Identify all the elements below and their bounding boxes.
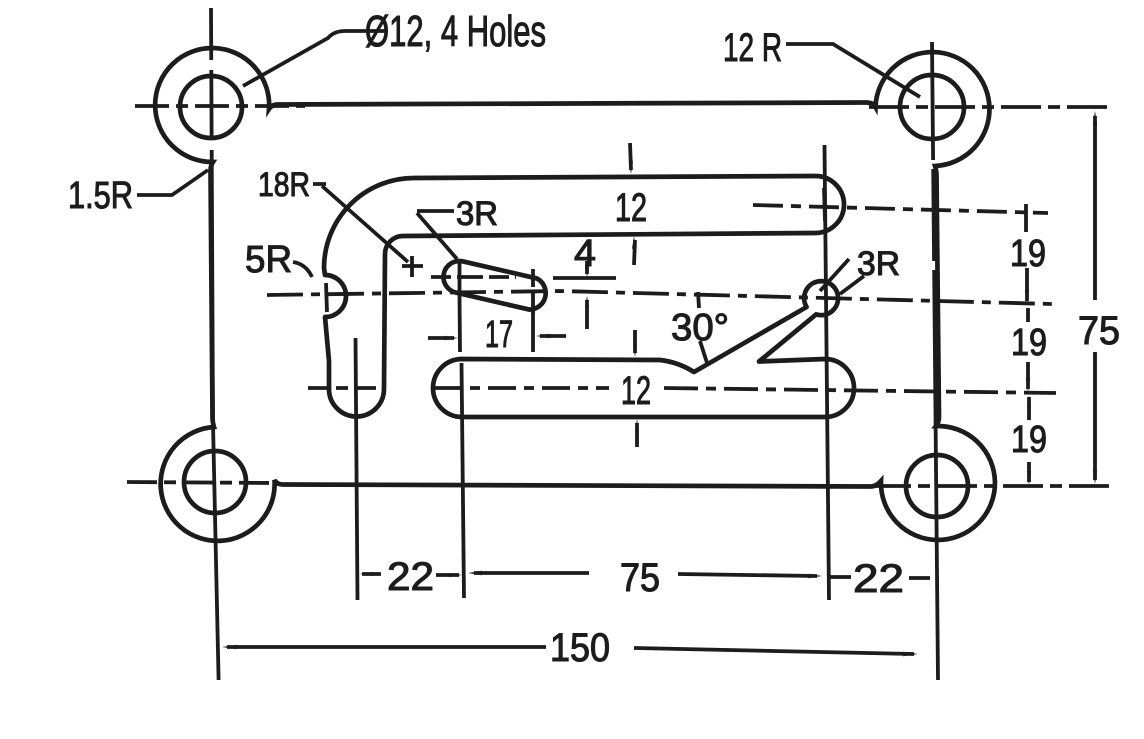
vertical dash at 5R bulge center xyxy=(326,283,327,312)
svg-text:5R: 5R xyxy=(245,239,292,281)
leader for 3R keyhole xyxy=(820,259,864,294)
center mark plus for 18R xyxy=(402,256,423,277)
svg-text:1.5R: 1.5R xyxy=(68,175,133,217)
extension line x=826 through slot caps xyxy=(825,145,830,600)
dim 19 col seg a xyxy=(1024,204,1028,232)
dim 17 left segment xyxy=(428,336,454,340)
dim 4 tick below xyxy=(585,300,589,329)
dim 19 col seg c xyxy=(1026,308,1030,322)
interior cutout: top 12-wide slot with 18R corner, 5R bulge, vertical channel xyxy=(324,176,844,417)
extension line x=459.5 for 17 dim xyxy=(458,296,462,352)
svg-text:30°: 30° xyxy=(671,307,729,349)
svg-text:19: 19 xyxy=(1010,233,1046,275)
svg-text:12 R: 12 R xyxy=(723,26,782,70)
leader for 5R xyxy=(293,262,312,277)
hole top-left Ø12 xyxy=(180,76,242,138)
dim 22 right line xyxy=(828,577,930,578)
vertical centerline through left holes / left edge xyxy=(211,8,219,680)
svg-text:75: 75 xyxy=(620,556,660,600)
svg-text:3R: 3R xyxy=(857,245,900,283)
horizontal centerline top-right hole extended to 75 dim xyxy=(869,105,1111,109)
horizontal centerline bottom-left hole xyxy=(127,482,277,483)
leader for 3R small slot xyxy=(417,211,457,259)
svg-text:75: 75 xyxy=(1078,309,1120,353)
small slot cap1 vertical crosshair xyxy=(458,260,462,296)
dim 17 right segment xyxy=(540,334,566,338)
svg-text:19: 19 xyxy=(1011,419,1047,461)
svg-text:12: 12 xyxy=(615,186,647,230)
dim 19 col seg b xyxy=(1025,268,1029,301)
dim 19 col seg f xyxy=(1027,462,1031,482)
dim 19 col seg d xyxy=(1026,362,1030,389)
extension line x=462 below lower slot left cap xyxy=(462,363,465,598)
leader for hole callout xyxy=(243,31,385,86)
hole bottom-left Ø12 xyxy=(184,451,246,513)
extension line x=356 below channel cap xyxy=(356,338,358,600)
dim 75 right line lower xyxy=(1093,352,1097,480)
dim 19 col seg e xyxy=(1027,397,1031,420)
svg-text:22: 22 xyxy=(853,557,904,601)
angle dim tick upper xyxy=(698,292,699,308)
hole top-right Ø12 xyxy=(900,75,964,139)
lower slot center line left part xyxy=(434,386,609,390)
svg-text:22: 22 xyxy=(387,555,434,599)
vertical dash at top slot cap center xyxy=(824,188,825,221)
svg-text:Ø12, 4 Holes: Ø12, 4 Holes xyxy=(365,7,546,56)
main horizontal centerline of plate xyxy=(267,291,1052,304)
svg-text:4: 4 xyxy=(574,233,596,275)
vertical centerline through right holes / right edge xyxy=(932,42,938,680)
small 3R slot (17 dimension) xyxy=(444,261,546,310)
extension line x=533 for 17 dim xyxy=(531,311,535,352)
small slot cap1 horizontal crosshair xyxy=(431,275,516,279)
dim 12 lower slot tick above xyxy=(633,330,637,353)
hole bottom-right Ø12 xyxy=(906,455,968,517)
svg-text:18R: 18R xyxy=(258,166,310,204)
svg-text:19: 19 xyxy=(1011,322,1047,364)
svg-text:17: 17 xyxy=(485,314,513,356)
lower slot center line right part xyxy=(664,388,1056,393)
svg-text:12: 12 xyxy=(621,369,651,413)
small slot cap2 vertical crosshair xyxy=(531,269,535,314)
svg-text:150: 150 xyxy=(550,626,610,670)
angle dim tick lower xyxy=(700,341,708,366)
horizontal centerline top-left hole xyxy=(135,104,305,108)
top slot center line through right cap xyxy=(753,205,1048,213)
leader for 18R xyxy=(313,184,408,262)
interior cutout: lower 12-wide slot with 30deg angled 3R keyhole slot xyxy=(433,281,854,417)
svg-text:3R: 3R xyxy=(456,195,498,233)
dim 75 bottom line xyxy=(474,573,817,576)
dim 150 line xyxy=(227,647,914,654)
plate outline with four 12R corner lobes and 1.5R fillets xyxy=(155,48,995,541)
dim 12 top slot tick below xyxy=(634,240,635,265)
dim 4 tick above xyxy=(585,261,589,274)
channel cap horizontal crosshair xyxy=(308,386,383,390)
leader for 12R xyxy=(786,44,920,97)
horizontal centerline bottom-right hole extended to 75 dim xyxy=(871,484,1110,488)
dim 12 top slot tick above xyxy=(630,143,631,170)
dim 75 right line upper xyxy=(1093,116,1097,300)
dim 22 left line xyxy=(362,574,459,575)
dim 4 short line y=278 xyxy=(553,276,616,280)
dim 12 lower slot tick below xyxy=(635,423,639,447)
leader for 1.5R xyxy=(137,170,208,195)
